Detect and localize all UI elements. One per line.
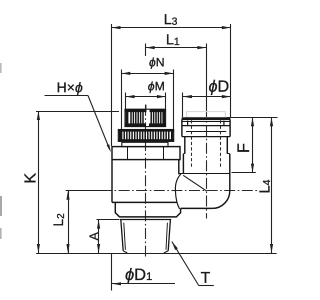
label Hxphi underline — [45, 95, 89, 97]
body-barrel intersection curve — [175, 174, 181, 209]
dimension L3 extension left — [111, 24, 113, 146]
dimension phiD extension left — [182, 93, 184, 118]
flange (lower hex skirt) — [115, 202, 180, 217]
fitting vertical centerline — [206, 108, 208, 219]
dimension L2 extension top — [66, 190, 107, 192]
dimension L1 extension right — [206, 44, 208, 108]
leader Hxphi — [88, 96, 110, 150]
dimension K extension top — [36, 111, 119, 113]
adjustment knob (knurled) — [125, 109, 166, 126]
dimension L4 — [271, 117, 273, 253]
dimension phiN — [121, 73, 173, 75]
dimension F extension bottom — [232, 172, 256, 174]
dimension phiD1 extension — [111, 253, 113, 291]
dimension phiM — [126, 96, 166, 98]
svg-text:ϕN: ϕN — [149, 55, 165, 69]
dimension phiD1 leader — [112, 283, 175, 285]
male taper thread — [120, 220, 171, 254]
dimension F — [252, 117, 254, 172]
leader T — [172, 242, 199, 286]
dimension L1 — [146, 47, 207, 49]
dimension phiD — [183, 96, 231, 98]
hex section — [112, 147, 180, 160]
label T underline — [199, 285, 214, 287]
dimension L3 extension right — [230, 24, 232, 117]
svg-text:K: K — [22, 173, 39, 184]
body (round section) — [112, 160, 179, 203]
knurled lock ring — [118, 130, 173, 142]
scan artifact left edge — [0, 63, 2, 73]
main vertical centerline — [145, 105, 147, 257]
svg-text:F: F — [235, 143, 253, 153]
dimension phiN extension left — [121, 70, 123, 130]
svg-text:ϕD: ϕD — [209, 78, 230, 96]
bottom extension line — [36, 253, 277, 255]
dimension L2 — [68, 191, 70, 253]
dimension K — [38, 111, 40, 253]
svg-text:ϕM: ϕM — [148, 79, 165, 93]
dimension A — [98, 220, 100, 253]
svg-text:T: T — [201, 270, 211, 287]
elbow body — [179, 154, 230, 209]
svg-text:H×ϕ: H×ϕ — [57, 79, 83, 95]
dimension phiN extension right — [173, 70, 175, 130]
fitting cap — [182, 117, 231, 136]
dimension F extension top — [227, 117, 278, 119]
dimension L1 extension left — [145, 44, 147, 57]
washer collar — [122, 142, 168, 146]
svg-text:A: A — [87, 231, 101, 240]
horizontal centerline — [66, 190, 259, 192]
tube release collar (ghost) — [187, 112, 226, 118]
fitting barrel upper — [183, 137, 229, 154]
slot line on adjustment knob — [145, 105, 147, 112]
dimension L3 — [112, 27, 231, 29]
dimension phiM extension left — [125, 93, 127, 110]
dimension phiM extension right — [165, 93, 167, 110]
tube bore hidden line left — [191, 120, 193, 167]
elbow chamfer diagonal — [183, 175, 206, 191]
tube bore hidden line right — [220, 120, 222, 167]
dimension A extension top — [97, 219, 120, 221]
